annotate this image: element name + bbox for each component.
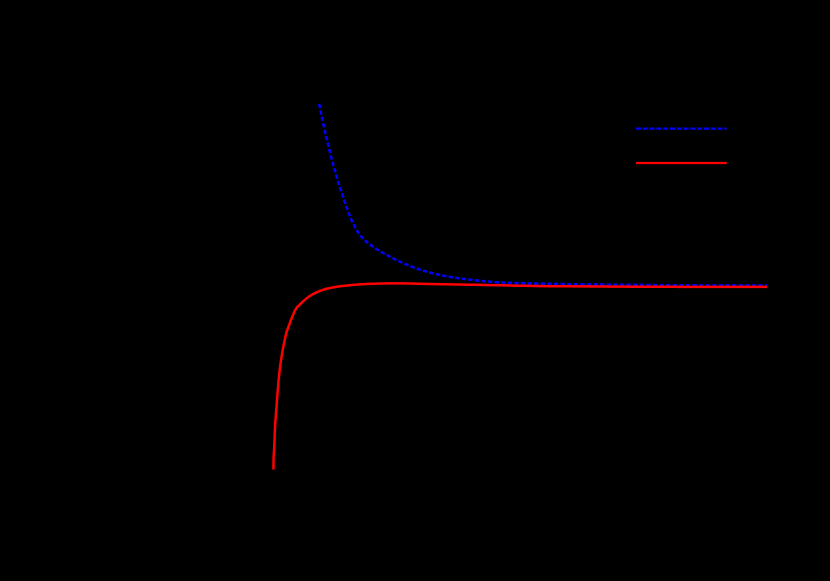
blue dashed curve [319, 104, 767, 286]
legend blue dashed line sample [636, 127, 727, 129]
red solid curve [273, 283, 767, 469]
legend red solid line sample [636, 162, 727, 164]
